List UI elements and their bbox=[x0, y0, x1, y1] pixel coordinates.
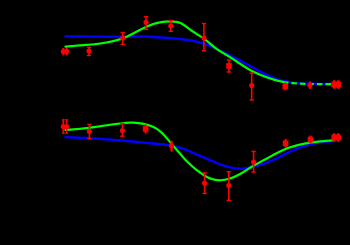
bottom data point 4 bbox=[120, 124, 125, 137]
top data point 4 bbox=[120, 33, 125, 45]
top data point 1 bbox=[61, 49, 66, 55]
bottom data point 11 bbox=[308, 137, 314, 143]
bottom data point 6 bbox=[169, 142, 174, 151]
top data point 13 bbox=[335, 82, 341, 88]
top data point 7 bbox=[201, 24, 206, 51]
top data point 9 bbox=[249, 73, 254, 100]
bottom panel green model curve bbox=[66, 123, 334, 181]
bottom panel blue model curve bbox=[66, 137, 334, 169]
bottom data point 8 bbox=[226, 172, 231, 201]
bottom data point 5 bbox=[143, 125, 149, 132]
top data point 3 bbox=[86, 47, 91, 55]
top data point 2 bbox=[64, 49, 69, 55]
bottom data point 7 bbox=[202, 173, 207, 194]
top data point 6 bbox=[168, 21, 173, 32]
top data point 12 bbox=[331, 82, 337, 88]
top data point 10 bbox=[283, 84, 289, 90]
bottom data point 1 bbox=[61, 120, 66, 133]
top data point 5 bbox=[143, 17, 148, 30]
top panel green dashed tail over blue bbox=[283, 82, 333, 84]
bottom data point 13 bbox=[335, 135, 341, 141]
bottom data point 2 bbox=[64, 120, 69, 133]
bottom data point 9 bbox=[251, 151, 256, 172]
top panel green model curve bbox=[66, 21, 284, 81]
bottom data point 3 bbox=[87, 124, 92, 138]
top data point 8 bbox=[226, 60, 232, 72]
top data point 11 bbox=[307, 82, 312, 88]
bottom data point 12 bbox=[331, 135, 337, 141]
top panel blue model curve bbox=[66, 36, 334, 84]
bottom data point 10 bbox=[283, 140, 289, 147]
